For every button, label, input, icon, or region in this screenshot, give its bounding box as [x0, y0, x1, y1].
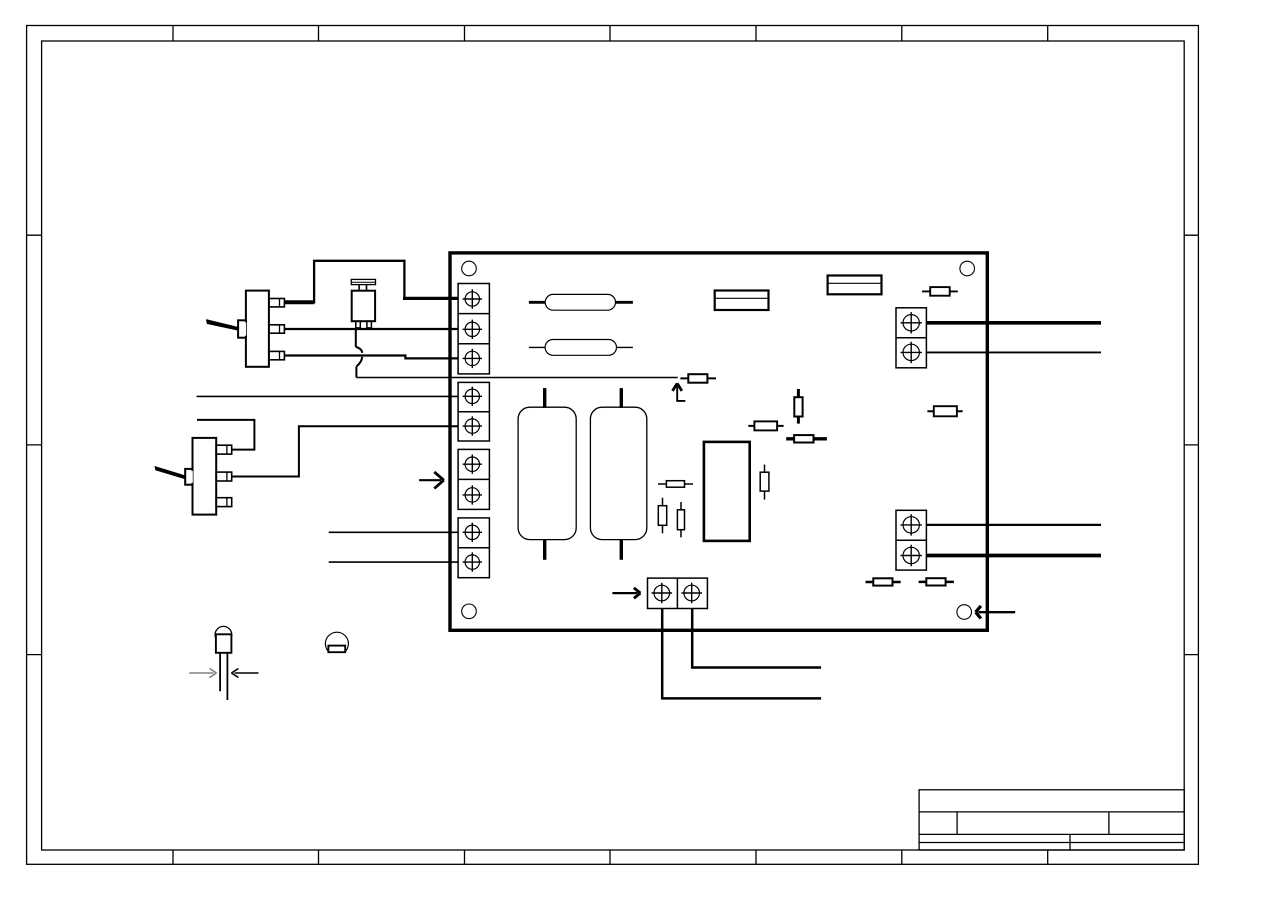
- border zone ticks top: [173, 26, 1048, 42]
- toggle switch S1: [206, 291, 284, 367]
- resistor R3 (vertical): [658, 498, 666, 534]
- resistor R7 (horizontal): [748, 421, 783, 430]
- terminal block J6 (2 poles, board right bottom): [896, 510, 926, 570]
- resistor R6 (upper mid-right, vertical): [794, 389, 802, 424]
- wire J6-2 out right (thick): [926, 554, 1101, 558]
- title block: [919, 790, 1184, 850]
- mounting hole top-right: [960, 261, 975, 276]
- resistor R12 (on long wire, horizontal): [680, 374, 716, 383]
- annotation arrow at J3: [419, 472, 444, 489]
- relay RL1: [704, 442, 750, 541]
- resistor R4 (vertical): [677, 502, 684, 537]
- mounting hole bottom-left: [462, 604, 477, 619]
- resistor R10 (bottom right left one): [866, 578, 901, 585]
- wire W1 to J2-1: [197, 395, 459, 397]
- dimension arrow right at D1: [231, 669, 258, 678]
- terminal block J7 (2 poles, board bottom): [648, 578, 708, 608]
- resistor R11 (bottom right right one): [919, 578, 954, 585]
- PCB board outline: [450, 253, 987, 630]
- dimension arrow left (gray) at D1: [189, 669, 216, 678]
- annotation arrow at J7: [612, 588, 640, 598]
- annotation arrow at bottom-right hole: [976, 606, 1016, 619]
- terminal block J4 (2 poles): [458, 518, 489, 578]
- wire: long net across board: [356, 377, 677, 379]
- wire J7-1 down and right: [662, 609, 821, 699]
- LED D1: [215, 626, 232, 700]
- wire to J4-1: [329, 531, 459, 533]
- wire: buzzer left leg down with hop over net B: [356, 328, 362, 378]
- resistor R5 (right of relay, vertical): [760, 465, 769, 500]
- toggle switch S2: [155, 438, 232, 515]
- wire: switch S1 pin2 to J1-2 (net A): [284, 328, 458, 330]
- wire to J4-2: [329, 561, 459, 563]
- wire: switch S1 pin3 to J1-3 (net B): [284, 356, 458, 359]
- wire: switch S2 pin1 stub: [197, 420, 254, 450]
- wire J6-1 out right: [926, 524, 1101, 526]
- border zone ticks bottom: [173, 850, 1048, 864]
- wire: switch S2 pin2 to J2-2: [232, 426, 459, 476]
- border zone ticks right: [1184, 235, 1198, 654]
- wire J5-1 out right (thick): [926, 321, 1101, 325]
- terminal block J1 (3 poles, board left top): [458, 284, 489, 374]
- LED D2 (top view): [325, 632, 348, 652]
- wire: switch S1 pin1 to J1-1: [284, 261, 458, 304]
- wire J7-2 down and right: [692, 609, 821, 668]
- mounting hole bottom-right: [957, 605, 972, 620]
- mounting hole top-left: [462, 261, 477, 276]
- fuse holder K2: [828, 276, 882, 295]
- fuse F1: [529, 294, 633, 310]
- capacitor C2: [590, 388, 646, 560]
- resistor R2 (left of relay, horizontal): [658, 481, 693, 488]
- annotation arrow (up, with foot): [673, 383, 686, 401]
- buzzer B1: [351, 279, 375, 328]
- fuse holder K1: [715, 291, 769, 311]
- resistor R1 (board top right): [922, 287, 958, 296]
- resistor R9 (mid right): [927, 406, 962, 416]
- fuse F2: [529, 340, 633, 356]
- capacitor C1: [518, 388, 576, 560]
- wire J5-2 out right: [926, 351, 1101, 353]
- terminal block J3 (2 poles): [458, 449, 489, 509]
- border zone ticks left: [27, 235, 42, 654]
- terminal block J2 (2 poles): [458, 382, 489, 441]
- resistor R8 (horizontal, fat leads): [786, 435, 827, 442]
- terminal block J5 (2 poles, board right top): [896, 308, 926, 368]
